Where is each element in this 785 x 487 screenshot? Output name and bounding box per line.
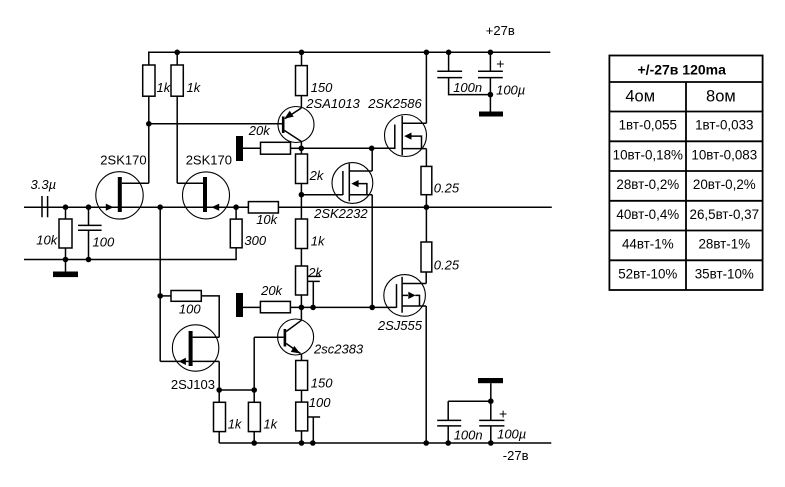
transistor Q8 2SJ103	[160, 325, 219, 392]
svg-text:35вт-10%: 35вт-10%	[695, 266, 754, 281]
svg-text:2k: 2k	[309, 168, 325, 183]
svg-text:100: 100	[179, 301, 201, 316]
svg-text:2SA1013: 2SA1013	[305, 96, 360, 111]
resistor R 1k middle	[296, 219, 327, 249]
svg-text:52вт-10%: 52вт-10%	[618, 266, 677, 281]
wire 1k left bottom to Q1 drain	[148, 96, 150, 183]
svg-text:28вт-1%: 28вт-1%	[698, 237, 750, 252]
node B sources junction dot	[157, 204, 163, 210]
svg-text:100µ: 100µ	[497, 427, 526, 442]
wire bias node down to Q7 collector	[300, 307, 302, 319]
node dot base/1k right	[251, 387, 257, 393]
svg-text:2sc2383: 2sc2383	[313, 342, 364, 357]
wire 100cs right corner down	[201, 296, 219, 337]
wire 2k to node F	[300, 184, 302, 220]
svg-text:10k: 10k	[36, 233, 58, 248]
svg-text:8ом: 8ом	[706, 88, 736, 106]
resistor R 0.25 upper	[421, 166, 460, 195]
svg-text:1k: 1k	[157, 80, 172, 95]
capacitor C2 100	[78, 207, 115, 259]
wire rail down to 2SK2586 drain	[425, 52, 427, 123]
svg-text:20вт-0,2%: 20вт-0,2%	[693, 177, 756, 192]
ground symbol upper bias	[236, 136, 261, 161]
resistor R 0.25 lower	[421, 242, 460, 272]
node F dot gate 2SK2232	[299, 192, 305, 198]
ground symbol bottom right	[478, 378, 503, 401]
wire main output horizontal line right part	[278, 206, 551, 208]
svg-text:2SJ103: 2SJ103	[171, 377, 215, 392]
wire Q7 base line	[254, 336, 283, 338]
svg-text:+: +	[499, 405, 507, 421]
wire base line down to y390 line	[253, 337, 255, 390]
wire 1k bottom-left to rail	[218, 432, 220, 443]
wire 2SK2586 source to 0.25 upper	[425, 149, 427, 167]
capacitor C4 100µ top electrolytic	[478, 52, 525, 97]
svg-text:150: 150	[311, 80, 333, 95]
resistor R 20k upper horizontal	[248, 123, 291, 154]
table power/distortion	[609, 56, 762, 291]
svg-text:4ом: 4ом	[625, 88, 655, 106]
svg-text:44вт-1%: 44вт-1%	[622, 237, 674, 252]
wire node to 1k bottom-left	[218, 390, 220, 402]
svg-text:1вт-0,033: 1вт-0,033	[695, 118, 753, 133]
wire 10k bottom to ground line	[65, 248, 67, 260]
resistor R 100 emitter with tap	[296, 395, 332, 443]
node dot C2 top	[86, 204, 92, 210]
svg-text:2SK170: 2SK170	[186, 152, 232, 167]
node dots bottom rail	[251, 440, 257, 446]
capacitor C6 100µ bottom electrolytic	[479, 401, 526, 443]
wire rail to 1k right	[176, 52, 178, 65]
resistor 10k input	[36, 219, 72, 248]
node E dot gate 2SK2586	[369, 146, 375, 152]
wire 2SJ555 source down to bottom rail	[425, 306, 427, 443]
node C gate2 junction dot	[233, 204, 239, 210]
svg-text:20k: 20k	[248, 123, 271, 138]
wire 1k middle to 2k lower	[300, 249, 302, 267]
wire node D to node E	[301, 147, 371, 149]
transistor Q5 2SK2232	[313, 163, 373, 221]
svg-text:-27в: -27в	[503, 448, 529, 463]
resistor R 1k bottom right	[248, 402, 278, 431]
svg-text:100µ: 100µ	[496, 83, 525, 98]
svg-text:3.3µ: 3.3µ	[31, 177, 57, 192]
svg-text:2SJ555: 2SJ555	[377, 318, 423, 333]
svg-text:26,5вт-0,37: 26,5вт-0,37	[690, 207, 760, 222]
svg-text:300: 300	[244, 233, 266, 248]
wire 1k bottom-right to rail	[253, 432, 255, 443]
resistor R 100 current source	[171, 291, 201, 317]
svg-text:2k: 2k	[307, 265, 323, 280]
wire y390 line	[219, 389, 254, 391]
resistor R 1k left load	[143, 65, 172, 96]
wire source node down to current source	[159, 207, 161, 361]
svg-text:1k: 1k	[228, 417, 243, 432]
svg-text:10вт-0,083: 10вт-0,083	[691, 147, 757, 162]
wire node to 1k bottom-right	[253, 390, 255, 402]
wire base line to 2SA1013	[149, 123, 283, 125]
wire 2SJ103 source down	[218, 361, 220, 390]
node dot 100cs left	[157, 293, 163, 299]
svg-text:+27в: +27в	[486, 23, 515, 38]
svg-text:2SK2232: 2SK2232	[313, 206, 368, 221]
node OUT dot	[424, 204, 430, 210]
svg-text:20k: 20k	[260, 283, 283, 298]
node dot 1k-left / base line	[146, 121, 152, 127]
node dot bias tap	[310, 305, 316, 311]
resistor R 10k feedback horizontal	[248, 202, 278, 227]
svg-text:100n: 100n	[453, 80, 482, 95]
wire bottom -27V rail	[219, 442, 551, 444]
wire input ground return line	[24, 248, 236, 260]
node dot bias/2k chain	[299, 305, 305, 311]
wire 150 to Q3 emitter	[300, 96, 302, 108]
node dots top rail caps	[446, 50, 452, 56]
ground symbol lower bias	[236, 293, 260, 317]
node dot 10k bottom	[63, 257, 69, 263]
transistor Q7 2sc2383	[278, 319, 364, 357]
node dot cap junction top	[488, 92, 494, 98]
wire main input/feedback horizontal line left part	[24, 206, 248, 208]
wire rail to 1k left	[148, 52, 150, 65]
svg-text:28вт-0,2%: 28вт-0,2%	[616, 177, 679, 192]
capacitor C3 100n top	[437, 52, 490, 95]
svg-text:1k: 1k	[311, 233, 326, 248]
resistor R 2k lower with tap	[296, 265, 324, 308]
wire 0.25 upper to output node	[425, 195, 427, 242]
svg-text:150: 150	[311, 375, 333, 390]
wire 150 to 100	[301, 390, 303, 402]
node dot bias 2SK2232 source	[369, 305, 375, 311]
node dot C2 bottom	[86, 257, 92, 263]
resistor R 20k lower horizontal	[260, 283, 290, 313]
wire 0.25 lower to 2SJ555 drain	[425, 272, 427, 284]
resistor R 1k right load	[171, 65, 202, 96]
wire 20k to node D	[291, 147, 302, 149]
transistor Q6 2SJ555	[377, 275, 426, 333]
svg-text:1вт-0,055: 1вт-0,055	[619, 118, 677, 133]
svg-text:+/-27в 120ma: +/-27в 120ma	[638, 62, 727, 78]
wire 1k right bottom to Q2 drain	[176, 96, 178, 183]
node dot cap junction bottom	[488, 398, 494, 404]
wire Q7 emitter to 150	[301, 354, 303, 361]
node A input junction dot	[63, 204, 69, 210]
wire node E to 2SK2586 gate	[372, 147, 395, 149]
wire 100 bottom to rail	[301, 431, 303, 443]
capacitor C5 100n bottom	[437, 401, 491, 443]
wire 20k lower to bias line nodes	[291, 306, 397, 308]
svg-text:0.25: 0.25	[434, 257, 460, 272]
svg-text:100: 100	[309, 395, 331, 410]
resistor R 1k bottom left	[214, 402, 243, 431]
wire 2SK2232 source down to bias node	[371, 195, 373, 308]
svg-text:10вт-0,18%: 10вт-0,18%	[613, 147, 683, 162]
wire 100cs left	[160, 295, 171, 297]
transistor Q2 2SK170 right	[177, 152, 232, 219]
wire rail to 150	[301, 52, 303, 65]
svg-text:10k: 10k	[256, 212, 278, 227]
wire node D to 2k upper	[300, 148, 302, 154]
wire 2k lower to bias line	[300, 295, 302, 307]
ground symbol top right	[479, 95, 503, 117]
capacitor C1 3.3µ input	[31, 177, 57, 217]
svg-text:100n: 100n	[454, 428, 483, 443]
svg-text:1k: 1k	[187, 80, 202, 95]
svg-text:0.25: 0.25	[434, 180, 460, 195]
wire 2SK2232 drain up to node E	[371, 148, 373, 171]
transistor Q4 2SK2586	[367, 96, 426, 157]
svg-text:1k: 1k	[263, 417, 278, 432]
node dot rail 2SK2586 drain	[424, 50, 430, 56]
svg-text:2SK170: 2SK170	[100, 152, 146, 167]
svg-text:+: +	[496, 56, 504, 72]
wire top +27V rail	[148, 51, 550, 53]
wire node A to R 10k	[65, 207, 67, 219]
wire node F to 2SK2232 gate	[301, 194, 343, 196]
svg-text:2SK2586: 2SK2586	[367, 96, 422, 111]
node dot rail 1k-right	[174, 50, 180, 56]
node D dot collector/bias	[299, 146, 305, 152]
svg-text:100: 100	[93, 234, 115, 249]
node dot rail 150	[299, 50, 305, 56]
svg-text:40вт-0,4%: 40вт-0,4%	[616, 207, 679, 222]
resistor R 2k upper	[296, 154, 325, 184]
node dot source/1k left	[216, 387, 222, 393]
resistor R 300	[230, 219, 267, 248]
resistor R 150 emitter	[296, 361, 334, 391]
transistor Q1 2SK170 left	[96, 152, 149, 219]
resistor R 150 top	[296, 66, 334, 96]
transistor Q3 2SA1013	[278, 96, 361, 148]
wire node C to 300	[235, 207, 237, 219]
ground symbol input	[53, 260, 78, 278]
